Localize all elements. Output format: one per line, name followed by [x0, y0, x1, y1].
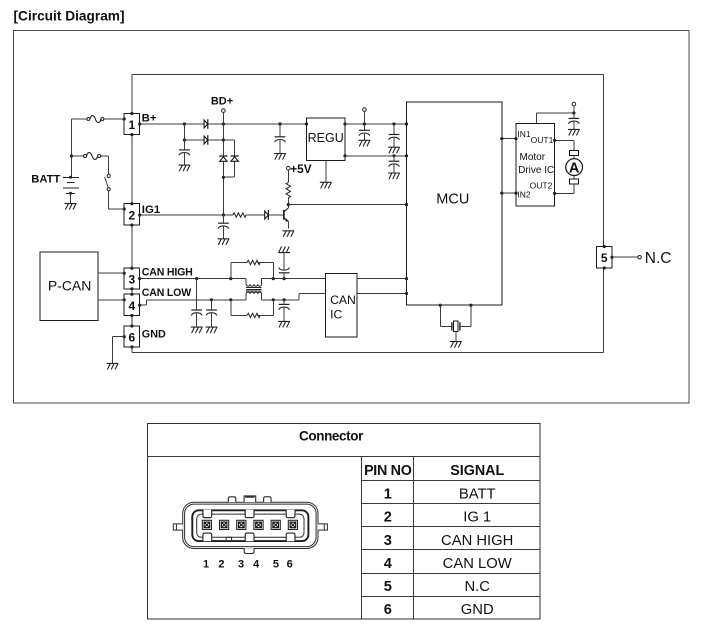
svg-text:BATT: BATT — [31, 173, 60, 185]
svg-text:2: 2 — [384, 510, 392, 526]
svg-text:BATT: BATT — [459, 487, 496, 503]
svg-text:N.C: N.C — [464, 579, 490, 595]
svg-text:1: 1 — [384, 487, 392, 503]
svg-text:CAN LOW: CAN LOW — [142, 287, 191, 299]
svg-text:REGU: REGU — [308, 131, 344, 145]
svg-text:GND: GND — [461, 602, 494, 618]
svg-text:1: 1 — [129, 118, 136, 132]
svg-text:3: 3 — [384, 533, 392, 549]
svg-text:5: 5 — [273, 559, 279, 571]
svg-text:SIGNAL: SIGNAL — [450, 463, 504, 479]
svg-text:GND: GND — [142, 329, 166, 341]
svg-text:IC: IC — [330, 307, 342, 321]
svg-text:3: 3 — [129, 273, 136, 287]
svg-text:CAN HIGH: CAN HIGH — [441, 533, 513, 549]
svg-text:6: 6 — [287, 559, 293, 571]
svg-text:OUT1: OUT1 — [531, 135, 554, 145]
svg-text:CAN HIGH: CAN HIGH — [142, 267, 193, 279]
svg-text:BD+: BD+ — [211, 96, 233, 108]
svg-text:A: A — [569, 160, 580, 176]
svg-text:3: 3 — [238, 559, 244, 571]
svg-text:P-CAN: P-CAN — [48, 278, 92, 294]
svg-text:4: 4 — [129, 299, 136, 313]
svg-text:+5V: +5V — [290, 162, 311, 176]
svg-text:OUT2: OUT2 — [530, 181, 553, 191]
svg-text:6: 6 — [129, 331, 136, 345]
svg-text:IN2: IN2 — [517, 190, 531, 200]
svg-text:4: 4 — [253, 559, 260, 571]
svg-text:1: 1 — [203, 559, 209, 571]
svg-text:5: 5 — [601, 251, 608, 265]
svg-text:MCU: MCU — [436, 192, 469, 208]
svg-text:N.C: N.C — [645, 250, 672, 267]
svg-text:Connector: Connector — [299, 428, 364, 443]
svg-text:IN1: IN1 — [517, 129, 531, 139]
svg-text:PIN NO: PIN NO — [364, 463, 412, 479]
svg-text:Motor: Motor — [520, 152, 546, 163]
svg-text:4: 4 — [384, 556, 393, 572]
svg-text:CAN: CAN — [330, 293, 356, 307]
svg-text:2: 2 — [129, 208, 136, 222]
svg-text:2: 2 — [218, 559, 224, 571]
svg-text:5: 5 — [384, 579, 392, 595]
svg-text:IG1: IG1 — [142, 204, 161, 216]
svg-text:IG 1: IG 1 — [463, 510, 491, 526]
svg-text:CAN LOW: CAN LOW — [443, 556, 512, 572]
svg-text:6: 6 — [384, 602, 392, 618]
svg-text:B+: B+ — [142, 112, 157, 124]
svg-text:[Circuit Diagram]: [Circuit Diagram] — [14, 8, 125, 23]
svg-text:Drive IC: Drive IC — [518, 165, 554, 176]
